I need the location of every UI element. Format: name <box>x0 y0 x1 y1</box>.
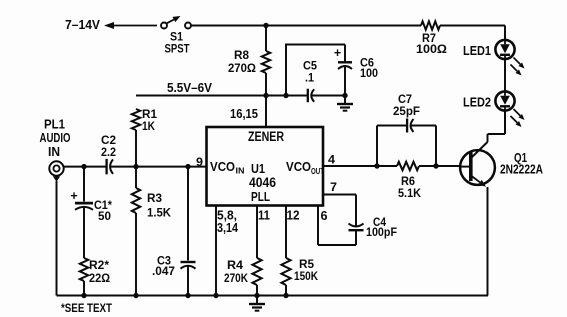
svg-text:LED1: LED1 <box>463 43 491 58</box>
svg-text:100: 100 <box>360 66 378 80</box>
svg-text:12: 12 <box>287 209 300 223</box>
svg-text:3,14: 3,14 <box>217 221 238 235</box>
svg-text:+: + <box>70 189 77 203</box>
svg-text:R4: R4 <box>227 258 243 272</box>
svg-text:U1: U1 <box>251 162 265 176</box>
svg-text:PL1: PL1 <box>44 118 65 132</box>
svg-text:IN: IN <box>236 166 245 176</box>
svg-text:11: 11 <box>258 209 270 223</box>
svg-text:.1: .1 <box>305 71 314 85</box>
svg-text:+: + <box>334 46 341 60</box>
svg-text:270Ω: 270Ω <box>228 63 256 75</box>
svg-text:LED2: LED2 <box>463 95 491 110</box>
svg-text:5.5V–6V: 5.5V–6V <box>167 80 212 95</box>
svg-text:PLL: PLL <box>251 189 270 204</box>
svg-text:S1: S1 <box>170 32 184 44</box>
svg-text:6: 6 <box>321 209 328 223</box>
svg-text:R8: R8 <box>234 50 250 62</box>
svg-text:9: 9 <box>196 155 203 169</box>
svg-text:1K: 1K <box>142 119 155 133</box>
svg-text:150K: 150K <box>294 269 318 283</box>
svg-text:IN: IN <box>48 145 60 159</box>
svg-text:1.5K: 1.5K <box>147 206 171 220</box>
svg-text:SPST: SPST <box>165 44 190 56</box>
svg-text:*SEE TEXT: *SEE TEXT <box>61 301 113 315</box>
svg-text:OUT: OUT <box>311 166 325 176</box>
svg-text:AUDIO: AUDIO <box>40 131 71 145</box>
svg-text:VCO: VCO <box>286 159 311 174</box>
svg-text:7: 7 <box>330 180 337 194</box>
svg-text:16,15: 16,15 <box>230 106 258 121</box>
svg-text:R2*: R2* <box>89 258 109 272</box>
svg-text:100Ω: 100Ω <box>416 42 447 56</box>
svg-text:100pF: 100pF <box>366 225 397 239</box>
svg-text:.047: .047 <box>152 264 175 278</box>
svg-text:VCO: VCO <box>210 159 235 174</box>
svg-text:270K: 270K <box>224 271 248 285</box>
svg-text:4046: 4046 <box>249 175 276 190</box>
svg-text:2.2: 2.2 <box>101 145 116 159</box>
svg-text:50: 50 <box>98 209 111 223</box>
svg-text:22Ω: 22Ω <box>89 271 110 285</box>
svg-text:2N2222A: 2N2222A <box>500 163 543 177</box>
svg-text:ZENER: ZENER <box>248 129 284 144</box>
svg-text:4: 4 <box>328 153 335 167</box>
svg-text:5.1K: 5.1K <box>398 186 421 200</box>
svg-text:7–14V: 7–14V <box>65 18 101 32</box>
svg-text:R3: R3 <box>147 191 162 205</box>
svg-text:25pF: 25pF <box>393 104 420 118</box>
